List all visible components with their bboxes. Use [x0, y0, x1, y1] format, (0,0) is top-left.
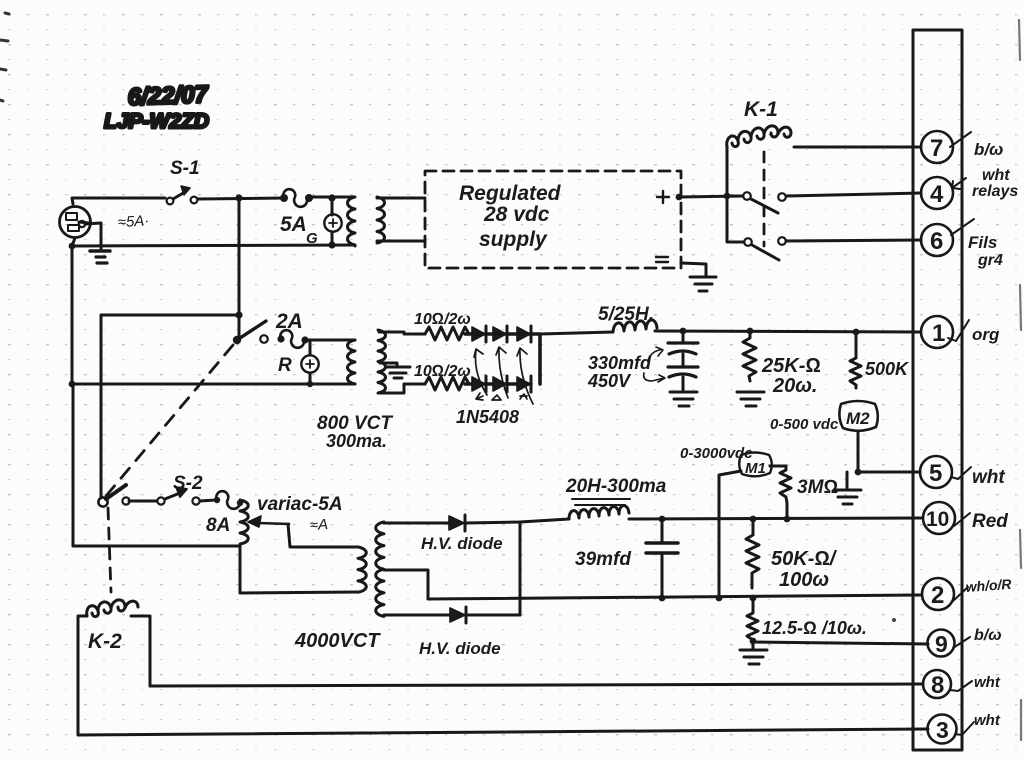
wire contact K1a to terminal 4	[786, 193, 921, 196]
transformer T3 secondary winding	[376, 522, 384, 616]
node neutral left	[69, 243, 76, 250]
svg-text:10: 10	[926, 508, 949, 531]
svg-text:b/ω: b/ω	[974, 627, 1002, 644]
node R6 bottom on return bus	[750, 595, 757, 602]
ground GND7 under R7	[740, 641, 767, 664]
svg-text:3: 3	[936, 717, 949, 743]
svg-text:S-1: S-1	[170, 158, 200, 179]
svg-text:2A: 2A	[275, 310, 303, 333]
relay K-1 coil	[727, 126, 791, 147]
node B+ feed junction	[235, 311, 242, 318]
variac T4 5A	[240, 494, 343, 544]
ground GND6 meter line	[834, 472, 861, 504]
svg-text:25K-Ω: 25K-Ω	[761, 355, 821, 377]
choke L2 20H-300ma	[565, 476, 667, 519]
svg-text:300ma.: 300ma.	[326, 431, 387, 451]
diode D4	[469, 376, 486, 392]
svg-text:12.5-Ω /10ω.: 12.5-Ω /10ω.	[762, 618, 867, 638]
supply box (dashed) Regulated 28 vdc supply	[425, 171, 681, 268]
fuse F1 5A	[280, 189, 313, 236]
svg-text:20H-300ma: 20H-300ma	[565, 476, 667, 497]
wire bus to terminal 8	[150, 684, 923, 686]
svg-text:4: 4	[930, 181, 944, 208]
svg-text:39mfd: 39mfd	[575, 549, 631, 570]
wire M1 right to R5	[770, 465, 786, 468]
svg-text:gr4: gr4	[977, 252, 1003, 269]
node contact K1a left	[724, 193, 731, 200]
svg-text:K-2: K-2	[88, 630, 122, 653]
terminal 9	[928, 627, 1002, 657]
svg-text:8: 8	[931, 672, 944, 699]
ground GND4 caps	[670, 392, 697, 406]
wire left leg to variac bottom	[73, 384, 240, 546]
wire contact K1b to terminal 6	[786, 240, 921, 241]
plus terminal label	[657, 191, 669, 203]
ground plug GND1	[79, 221, 110, 263]
node supply + output	[676, 194, 683, 201]
svg-text:8A: 8A	[206, 515, 230, 536]
diode D2	[486, 326, 507, 342]
svg-text:2: 2	[931, 582, 944, 609]
wire R7 to terminal 9	[753, 642, 928, 644]
node cap C1 tap	[680, 328, 687, 335]
resistor R7 12.5ohm 10W	[747, 598, 867, 643]
meter M1 0-3000vdc	[680, 445, 772, 477]
node R3 tap	[747, 328, 754, 335]
wire rectifier top out	[531, 334, 540, 384]
wire bottom bus to terminal 3	[78, 729, 928, 735]
node R6 top tap	[750, 516, 757, 523]
wire plug to S-1	[72, 198, 165, 204]
wire variac bottom to T3 primary bottom	[240, 546, 358, 593]
svg-text:5A: 5A	[280, 213, 307, 236]
fuse F2 2A	[275, 310, 309, 348]
wire rectifier to choke	[540, 332, 613, 334]
svg-text:1: 1	[932, 320, 945, 347]
svg-text:LJP-W2ZD: LJP-W2ZD	[104, 110, 209, 133]
svg-text:1N5408: 1N5408	[456, 407, 519, 427]
wire K-2 left lead to bottom bus	[78, 616, 87, 735]
wire to S-2 leg	[101, 315, 239, 498]
pilot lamp G	[306, 198, 342, 247]
svg-text:5/25H.: 5/25H.	[598, 304, 654, 325]
svg-text:b/ω: b/ω	[974, 140, 1003, 159]
svg-text:Red: Red	[972, 511, 1008, 532]
terminal 3	[928, 712, 1001, 744]
diode D6	[507, 376, 531, 392]
svg-text:wht: wht	[974, 674, 1001, 691]
terminal 7	[921, 131, 1003, 163]
svg-text:0-500 vdc: 0-500 vdc	[770, 416, 839, 433]
svg-text:Regulated: Regulated	[459, 182, 562, 205]
plug P1 (AC line plug)	[60, 207, 91, 238]
diode D7 H.V.	[421, 515, 503, 553]
svg-text:wht: wht	[974, 712, 1001, 729]
ground GND2 supply minus	[690, 277, 716, 291]
wire T1 secondary to supply box	[377, 198, 425, 241]
svg-text:≈A: ≈A	[309, 516, 328, 534]
terminal 10	[923, 502, 1008, 534]
node lamp G tap	[328, 194, 335, 201]
capacitor C2 330mfd	[668, 367, 698, 390]
fuse F3 8A	[206, 491, 243, 536]
scan edge marks	[0, 13, 9, 101]
svg-text:wht: wht	[982, 167, 1010, 184]
wire K-2 right lead	[131, 616, 150, 686]
svg-text:wht: wht	[972, 467, 1005, 488]
ground GND3 T2 center tap	[380, 363, 410, 378]
wire K-1 coil left lead down	[726, 147, 729, 242]
node M2 ground junction	[855, 469, 862, 476]
capacitor C3 39mfd	[575, 519, 678, 599]
node R5 bottom tap	[784, 516, 791, 523]
wire top bus down to 2A switch	[238, 198, 241, 338]
relay K-2 coil	[87, 600, 138, 653]
wire 2A to transformer T2	[308, 339, 355, 342]
terminal strip	[913, 30, 962, 750]
wire T3 center tap to return bus	[384, 570, 921, 599]
wire S-1 to fuse F1	[198, 198, 285, 199]
svg-text:28 vdc: 28 vdc	[483, 203, 550, 226]
resistor R6 50K 100W	[746, 519, 838, 591]
switch S-2	[98, 473, 216, 507]
svg-text:0-3000vdc: 0-3000vdc	[680, 445, 753, 462]
transformer T2 secondary winding	[378, 330, 386, 393]
terminal 1	[921, 316, 1000, 348]
relay contact K1a	[727, 192, 786, 213]
node R4 tap	[853, 329, 860, 336]
svg-text:3MΩ: 3MΩ	[797, 477, 838, 498]
dashed relay link K-1	[763, 152, 766, 246]
svg-text:500K: 500K	[865, 359, 910, 379]
svg-text:wh/o/R: wh/o/R	[965, 576, 1013, 595]
diode D8 H.V.	[419, 607, 501, 658]
resistor R5 3M	[780, 466, 838, 519]
svg-text:variac-5A: variac-5A	[257, 494, 343, 515]
page edge marks	[1019, 20, 1021, 740]
svg-text:H.V. diode: H.V. diode	[421, 534, 503, 553]
node junction top bus at x=239	[235, 194, 242, 201]
diode D1	[469, 326, 486, 342]
annotation arrows to diodes	[474, 347, 533, 404]
resistor R1 10ohm/2W	[425, 327, 469, 340]
wire T2 sec top to R1	[379, 332, 425, 334]
dashed link S-2 to K-2	[108, 508, 111, 592]
transformer T1 secondary winding	[377, 197, 385, 243]
choke L1 5/25H	[613, 320, 657, 332]
diode D3	[507, 326, 531, 342]
relay contact K1b	[728, 237, 786, 260]
transformer T2 primary winding	[348, 340, 356, 384]
terminal 8	[923, 670, 1001, 699]
wire T2 bottom return	[72, 246, 355, 384]
pilot lamp R	[278, 340, 319, 384]
resistor R3 25K 20W	[743, 331, 821, 397]
svg-text:Fils: Fils	[968, 233, 997, 252]
switch 2A pivot and blade	[233, 321, 268, 344]
wire D7 to filter	[465, 519, 569, 523]
resistor R4 500K	[850, 332, 910, 388]
terminal 5	[920, 456, 1005, 488]
svg-text:9: 9	[935, 631, 948, 657]
svg-text:6: 6	[930, 228, 943, 255]
svg-text:R: R	[278, 355, 292, 376]
ground GND5 under R3	[737, 392, 764, 406]
wire T2 sec bottom to R2	[379, 384, 425, 393]
switch S-1	[167, 158, 200, 204]
node C3 top tap	[659, 516, 666, 523]
svg-text:M1: M1	[745, 460, 766, 477]
dashed link 2A switch to S-2	[106, 345, 233, 496]
wire M2 to terminal 5	[858, 432, 920, 472]
svg-text:5: 5	[929, 460, 942, 487]
diode D5	[486, 376, 507, 392]
wire choke to terminal 10	[629, 518, 921, 519]
transformer T3 primary winding	[358, 547, 366, 592]
wire neutral bottom	[72, 238, 355, 246]
wire M1 left lead down	[719, 471, 741, 598]
stray mark	[892, 618, 896, 622]
svg-text:4000VCT: 4000VCT	[294, 630, 381, 652]
node T2 return left	[69, 381, 76, 388]
svg-text:relays: relays	[972, 183, 1018, 200]
wire T3 sec bottom to HV diode	[384, 614, 450, 617]
svg-text:supply: supply	[479, 228, 548, 251]
svg-text:7: 7	[930, 135, 943, 162]
svg-text:450V: 450V	[587, 371, 632, 391]
node C3 bottom	[659, 595, 666, 602]
svg-text:≈5A·: ≈5A·	[117, 212, 149, 231]
node lamp R bottom	[307, 381, 313, 387]
wire choke to terminal 1	[655, 331, 920, 332]
terminal 2	[922, 576, 1013, 610]
svg-text:K-1: K-1	[744, 98, 778, 121]
svg-text:H.V. diode: H.V. diode	[419, 639, 501, 658]
svg-text:10Ω/2ω: 10Ω/2ω	[414, 311, 471, 328]
wire D8 to join	[466, 614, 520, 617]
svg-text:50K-Ω/: 50K-Ω/	[771, 548, 838, 570]
wire wiper to T3 primary top	[288, 524, 358, 547]
node M1 lead on return bus	[716, 595, 723, 602]
wire K-1 coil to terminal 7	[794, 146, 920, 149]
svg-text:100ω: 100ω	[779, 569, 829, 591]
wire rectifier join vertical	[519, 522, 522, 615]
svg-text:10Ω/2ω: 10Ω/2ω	[414, 363, 471, 380]
capacitor C1 330mfd	[668, 331, 698, 366]
wire T3 sec top to HV diode	[384, 522, 449, 525]
terminal 6	[921, 219, 1003, 269]
svg-text:M2: M2	[846, 409, 870, 428]
transformer T1 primary winding	[313, 197, 355, 246]
node R7 bottom	[750, 638, 757, 645]
svg-text:20ω.: 20ω.	[772, 375, 818, 397]
wire + to relay contacts	[679, 196, 743, 197]
resistor R2 10ohm/2W	[425, 377, 469, 390]
minus terminal label	[656, 257, 668, 262]
variac wiper arrow	[258, 523, 289, 524]
wire - to ground	[681, 263, 706, 276]
svg-text:6/22/07: 6/22/07	[127, 81, 210, 111]
terminal 4	[921, 167, 1018, 209]
svg-text:org: org	[972, 325, 1000, 344]
svg-text:330mfd: 330mfd	[588, 353, 652, 373]
meter M2 0-500vdc	[770, 401, 878, 433]
